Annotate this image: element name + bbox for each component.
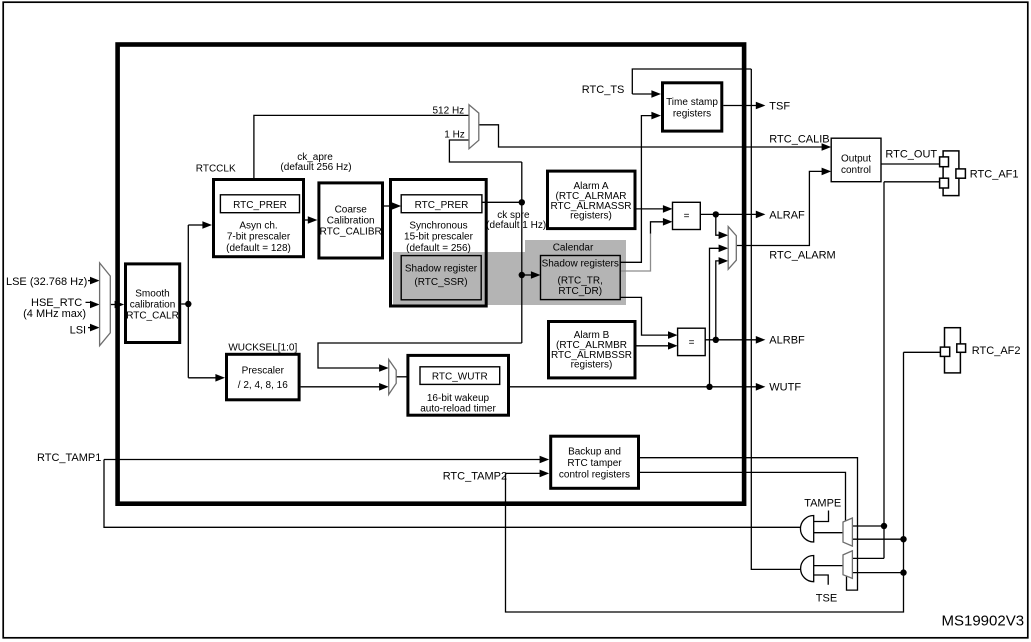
svg-text:Asyn ch.: Asyn ch. xyxy=(239,220,277,231)
svg-text:LSI: LSI xyxy=(70,325,87,337)
junction: AF2 timestamp node xyxy=(900,569,906,575)
block: Alarm B registers xyxy=(549,322,636,378)
svg-text:control registers: control registers xyxy=(559,470,630,481)
mux: calibration output select (512Hz/1Hz) xyxy=(469,105,479,149)
wire: RTC_TAMP2 input xyxy=(506,472,542,474)
wire: ck_spre to wakeup mux xyxy=(318,343,522,368)
svg-text:TAMPE: TAMPE xyxy=(804,498,841,510)
junction: ck_spre top node xyxy=(519,199,525,205)
wire: calendar to alarm B comparator xyxy=(620,297,668,335)
wire: smooth calibration output node xyxy=(181,303,188,305)
wire: alarm A registers to comparator xyxy=(637,208,666,210)
svg-text:ALRAF: ALRAF xyxy=(769,209,805,221)
svg-text:7-bit prescaler: 7-bit prescaler xyxy=(227,232,291,243)
wire: ALRAF comparator output xyxy=(700,213,757,215)
wire: ALRBF comparator output xyxy=(705,339,757,341)
mux: wakeup clock select xyxy=(389,360,397,395)
wire: backup registers output to TSE demux xyxy=(640,458,858,590)
svg-text:registers): registers) xyxy=(570,211,612,222)
svg-text:(default 256 Hz): (default 256 Hz) xyxy=(280,162,351,173)
wire: backup registers output to TAMPE demux xyxy=(640,472,846,520)
svg-text:=: = xyxy=(689,338,695,349)
block: wakeup prescaler /2,4,8,16 xyxy=(227,354,300,400)
svg-text:RTC_CALIBR: RTC_CALIBR xyxy=(320,227,382,238)
wire: WUTF to alarm mux input 2 xyxy=(710,248,722,386)
svg-text:RTC_CALR: RTC_CALR xyxy=(126,310,179,321)
wire: clock mux output to smooth calibration xyxy=(110,304,118,306)
svg-text:RTC_TAMP1: RTC_TAMP1 xyxy=(37,452,101,464)
block: output control xyxy=(831,138,881,182)
svg-text:/ 2, 4, 8, 16: / 2, 4, 8, 16 xyxy=(238,380,288,391)
mux: RTCCLK source select (LSE/HSE/LSI) xyxy=(100,263,111,346)
svg-text:RTCCLK: RTCCLK xyxy=(196,163,236,174)
and-gate: TSE timestamp enable xyxy=(801,556,814,582)
block: asynchronous 7-bit prescaler xyxy=(214,180,304,257)
svg-text:15-bit prescaler: 15-bit prescaler xyxy=(404,232,474,243)
wire: ck_spre vertical trunk xyxy=(521,162,523,343)
wire: TSE demux output to AF2 trunk xyxy=(852,572,903,574)
svg-text:(RTC_SSR): (RTC_SSR) xyxy=(414,277,467,288)
svg-text:Output: Output xyxy=(841,154,871,165)
svg-text:RTC_DR): RTC_DR) xyxy=(558,286,602,297)
wire: wakeup mux to RTC_WUTR xyxy=(396,376,412,378)
wire: TAMPE gate output xyxy=(814,532,843,534)
svg-text:RTC_ALARM: RTC_ALARM xyxy=(769,249,835,261)
svg-text:ALRBF: ALRBF xyxy=(769,335,805,347)
junction: RTCCLK node xyxy=(185,301,191,307)
junction: calendar feed node xyxy=(519,272,525,278)
wire: AF1 event trunk vertical xyxy=(883,182,885,559)
svg-text:RTC_WUTR: RTC_WUTR xyxy=(432,371,488,382)
wire: AF2 pad connection xyxy=(904,351,941,353)
svg-text:Smooth: Smooth xyxy=(135,288,169,299)
junction: AF1 event node xyxy=(881,523,887,529)
wire: calendar to time stamp register xyxy=(620,116,653,263)
wire: 1 Hz tap to clock output mux xyxy=(449,140,521,162)
wire: LSI input xyxy=(88,327,94,329)
svg-text:(default = 128): (default = 128) xyxy=(226,243,291,254)
wire: RTCCLK to wakeup prescaler xyxy=(188,377,217,379)
svg-text:control: control xyxy=(841,165,871,176)
wire: TSE gate output xyxy=(814,565,843,567)
svg-text:Shadow registers: Shadow registers xyxy=(542,259,619,270)
demux: tamper event routing xyxy=(843,518,852,546)
wire: 512/1Hz mux output to RTC_CALIB line xyxy=(479,125,823,147)
wire: WUTF output from wakeup timer xyxy=(510,386,757,388)
svg-text:RTC tamper: RTC tamper xyxy=(567,458,622,469)
block: synchronous 15-bit prescaler xyxy=(391,180,487,307)
calendar gray band xyxy=(393,252,626,305)
svg-text:(default 1 Hz): (default 1 Hz) xyxy=(486,220,546,231)
wire: RTC_TS trunk down to TSE gate xyxy=(751,69,802,569)
wire: TAMPE demux output to AF2 trunk xyxy=(852,538,903,540)
wire: LSE input xyxy=(88,280,94,282)
register: calendar shadow registers RTC_TR RTC_DR xyxy=(541,256,621,300)
register: shadow register RTC_SSR xyxy=(401,256,481,300)
svg-text:(default = 256): (default = 256) xyxy=(406,243,471,254)
svg-text:Time stamp: Time stamp xyxy=(666,97,718,108)
svg-text:registers: registers xyxy=(673,108,711,119)
wire: TSE enable stub xyxy=(814,575,829,585)
comparator: alarm A equal xyxy=(673,202,701,229)
svg-text:1 Hz: 1 Hz xyxy=(444,130,465,141)
wire: RTCCLK vertical trunk xyxy=(187,225,189,378)
wire: ALRAF to alarm mux input 1 xyxy=(716,214,721,235)
junction: ALRAF node xyxy=(713,211,719,217)
wire: RTCCLK to asynchronous prescaler xyxy=(188,224,204,226)
wire: RTC_TS input loop xyxy=(632,69,751,94)
wire: async prescaler to coarse calibration xyxy=(305,219,311,221)
svg-text:auto-reload timer: auto-reload timer xyxy=(420,403,496,414)
wire: RTC_OUT to AF1 pad xyxy=(881,163,940,165)
wire: RTC_TAMP1 branch to TAMPE gate xyxy=(104,460,802,528)
wire: coarse calibration to sync prescaler xyxy=(384,205,395,207)
junction: WUTF node xyxy=(706,384,712,390)
svg-text:RTC_PRER: RTC_PRER xyxy=(233,200,287,211)
svg-text:512 Hz: 512 Hz xyxy=(433,106,465,117)
svg-text:Prescaler: Prescaler xyxy=(242,366,285,377)
block: time stamp registers xyxy=(663,83,722,131)
wire: wakeup prescaler to wakeup mux xyxy=(301,386,381,388)
wire: TSF flag output xyxy=(723,105,757,107)
wire: TSE demux output to AF1 trunk xyxy=(852,557,884,559)
svg-text:Synchronous: Synchronous xyxy=(409,220,467,231)
block: Coarse Calibration RTC_CALIBR xyxy=(319,183,383,258)
svg-text:Backup and: Backup and xyxy=(568,447,621,458)
wire: ck_spre to calendar xyxy=(522,274,532,276)
svg-text:WUCKSEL[1:0]: WUCKSEL[1:0] xyxy=(228,342,297,353)
wire: alarm B registers to comparator xyxy=(637,345,669,347)
wire: AF1 event to lower pad xyxy=(884,181,940,183)
svg-text:(RTC_TR,: (RTC_TR, xyxy=(558,275,603,286)
block: Smooth calibration RTC_CALR xyxy=(126,264,180,343)
svg-text:16-bit wakeup: 16-bit wakeup xyxy=(427,393,490,404)
svg-text:calibration: calibration xyxy=(130,299,176,310)
comparator: alarm B equal xyxy=(678,328,706,355)
svg-text:Calibration: Calibration xyxy=(327,216,375,227)
svg-text:MS19902V3: MS19902V3 xyxy=(942,613,1025,630)
wire: RTC_TAMP1 input xyxy=(104,459,541,461)
mux: RTC_ALARM select xyxy=(728,227,736,270)
demux: timestamp event routing xyxy=(843,551,852,579)
wire: TAMPE enable stub xyxy=(814,511,829,522)
svg-text:RTC_OUT: RTC_OUT xyxy=(885,148,937,160)
wire: TAMPE demux output to AF1 trunk xyxy=(852,525,884,527)
svg-text:RTC_AF2: RTC_AF2 xyxy=(972,345,1021,357)
and-gate: TAMPE tamper enable xyxy=(800,516,813,543)
svg-text:TSF: TSF xyxy=(769,100,790,112)
wire: sync prescaler output xyxy=(482,201,522,203)
block: Alarm A registers xyxy=(548,171,636,229)
svg-text:RTC_PRER: RTC_PRER xyxy=(415,200,469,211)
svg-text:LSE (32.768 Hz): LSE (32.768 Hz) xyxy=(6,276,87,288)
svg-text:RTC_AF1: RTC_AF1 xyxy=(970,168,1019,180)
block: RTC_WUTR 16-bit wakeup auto-reload timer xyxy=(408,355,509,415)
pin: RTC_AF2 xyxy=(945,328,961,373)
wire: calendar to alarm A comparator (gray) xyxy=(620,233,650,271)
svg-text:RTC_TAMP2: RTC_TAMP2 xyxy=(443,471,507,483)
svg-text:Calendar: Calendar xyxy=(553,243,594,254)
svg-text:TSE: TSE xyxy=(816,593,837,605)
junction: ALRBF node xyxy=(713,337,719,343)
svg-text:WUTF: WUTF xyxy=(769,382,801,394)
wire: 512 Hz tap from async prescaler xyxy=(254,115,469,178)
svg-text:Shadow register: Shadow register xyxy=(405,264,478,275)
wire: HSE_RTC input xyxy=(86,302,95,304)
block: backup and RTC tamper control registers xyxy=(551,436,639,488)
RTC main block border xyxy=(118,45,745,504)
junction: AF2 tamper node xyxy=(900,536,906,542)
svg-text:(4 MHz max): (4 MHz max) xyxy=(23,308,86,320)
svg-text:RTC_TS: RTC_TS xyxy=(582,84,625,96)
wire: RTC_ALARM to output control xyxy=(736,171,823,245)
svg-text:RTC_CALIB: RTC_CALIB xyxy=(769,133,829,145)
wire: RTC_TAMP2 from AF2 trunk xyxy=(506,352,904,612)
pin: RTC_AF1 xyxy=(943,151,959,196)
svg-text:=: = xyxy=(684,211,690,222)
svg-text:Coarse: Coarse xyxy=(335,205,368,216)
svg-text:registers): registers) xyxy=(571,360,613,371)
wire: ALRBF to alarm mux input 3 xyxy=(716,261,721,340)
